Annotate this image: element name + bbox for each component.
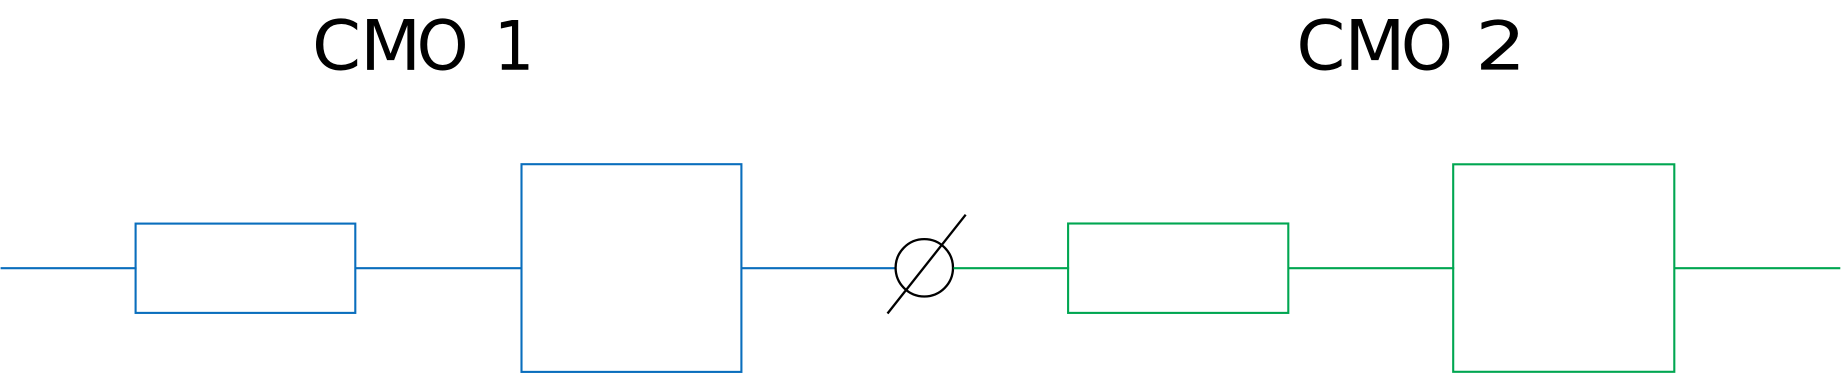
wire W1 left lead [1,267,137,269]
block B4 large square CMO 2 [1453,164,1674,371]
wire W6 right lead [1674,267,1840,269]
changer symbol circle [896,239,953,296]
block B2 large square CMO 1 [522,164,742,372]
label CMO 1 [316,18,528,70]
label CMO 2 [1300,18,1518,70]
wire W3 [741,267,895,269]
wire W2 [355,267,522,269]
wire W5 [1288,267,1454,269]
changer symbol slash [888,215,966,314]
wire W4 [954,267,1070,269]
block B1 small rectangle CMO 1 [136,224,356,313]
block B3 small rectangle CMO 2 [1068,224,1288,313]
